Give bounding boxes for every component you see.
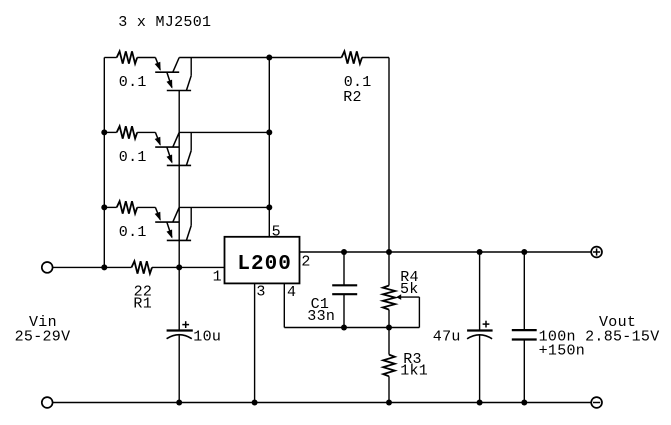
svg-text:R1: R1: [133, 296, 152, 313]
svg-text:5k: 5k: [400, 281, 419, 298]
svg-text:0.1: 0.1: [119, 74, 147, 91]
svg-text:3 x MJ2501: 3 x MJ2501: [118, 14, 211, 31]
svg-text:5: 5: [272, 224, 281, 241]
svg-text:25-29V: 25-29V: [15, 329, 71, 346]
svg-text:R2: R2: [343, 89, 362, 106]
svg-text:3: 3: [256, 283, 265, 300]
svg-text:0.1: 0.1: [119, 149, 147, 166]
svg-text:4: 4: [287, 284, 296, 301]
svg-text:2: 2: [301, 254, 310, 271]
svg-text:+150n: +150n: [539, 343, 586, 360]
svg-text:33n: 33n: [307, 308, 335, 325]
svg-text:0.1: 0.1: [119, 224, 147, 241]
svg-text:1: 1: [213, 269, 222, 286]
svg-text:47u: 47u: [433, 328, 461, 345]
svg-text:1k1: 1k1: [400, 363, 428, 380]
svg-text:L200: L200: [237, 253, 291, 276]
svg-text:10u: 10u: [193, 328, 221, 345]
